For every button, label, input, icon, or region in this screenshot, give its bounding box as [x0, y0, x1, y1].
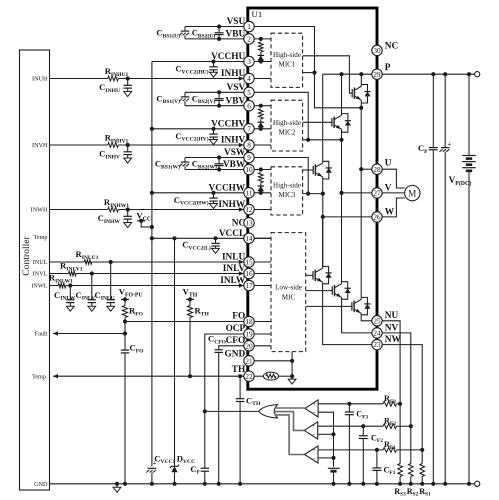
junction C_BS2(V) bottom: [217, 104, 221, 108]
pin 15: [244, 257, 254, 267]
ground C_INLV: [88, 306, 96, 311]
capacitor C_F3: [348, 404, 350, 412]
junction GND rail x=240.1: [238, 482, 242, 486]
svg-text:NV: NV: [385, 323, 399, 333]
wire V high emitter: [341, 129, 343, 140]
wire MIC2 gate output: [303, 121, 332, 123]
comparator 1: [305, 400, 318, 417]
wire to pin INLW: [66, 285, 244, 287]
wire pin 6 to MIC2: [254, 105, 271, 107]
wire VBU rail: [185, 38, 244, 40]
wire INVL from controller: [50, 273, 69, 275]
resistor R_INHU1: [108, 76, 119, 81]
high-side driver MIC2: [271, 100, 303, 151]
junction U collector on P: [359, 72, 363, 76]
wire pin 12 to MIC3: [254, 209, 271, 211]
wire MIC1 VS output: [303, 72, 315, 74]
ground symbol on GND rail: [115, 482, 119, 486]
resistor R_S1: [420, 464, 425, 477]
junction C_INLV: [90, 271, 94, 275]
junction node IN HU: [126, 76, 130, 80]
OR gate: [259, 405, 278, 418]
wire pin 3 to MIC1: [254, 61, 271, 63]
resistor R_F1: [383, 448, 396, 453]
svg-text:−: −: [312, 431, 316, 438]
ground internal: [291, 376, 293, 379]
capacitor C_VCC2(HW): [213, 193, 215, 198]
pin 13: [244, 218, 254, 228]
wire low-side gate W: [306, 274, 313, 276]
pin 18: [244, 316, 254, 326]
resistor R_INLV1: [69, 271, 77, 275]
pin 6: [244, 101, 254, 111]
wire comparator - reference bus: [318, 412, 333, 467]
svg-text:U1: U1: [252, 9, 263, 19]
svg-text:High-side: High-side: [273, 51, 301, 59]
low-side driver MIC: [271, 233, 306, 352]
svg-text:VBU: VBU: [226, 30, 246, 40]
IGBT low-side U: [351, 302, 353, 311]
ground C_INLU: [107, 306, 115, 311]
wire VCCHV: [152, 128, 244, 130]
svg-text:3: 3: [247, 58, 251, 66]
svg-text:30: 30: [373, 47, 381, 55]
freewheel diode W high: [323, 161, 329, 179]
svg-text:M: M: [408, 188, 416, 198]
ground C_INHU: [124, 92, 132, 97]
junction C_F2 tap: [361, 424, 365, 428]
svg-text:GND: GND: [225, 350, 246, 360]
svg-text:MIC: MIC: [282, 294, 296, 302]
junction Fault: [123, 331, 127, 335]
pin 24: [372, 328, 382, 338]
svg-text:Fault: Fault: [35, 331, 48, 338]
capacitor C_VCC1 electrolytic: [148, 467, 157, 469]
pin 20: [244, 341, 254, 351]
internal bootstrap resistor W: [259, 167, 263, 171]
junction MIC1 VS: [312, 71, 316, 75]
ground C_VCC2(HV): [210, 140, 218, 145]
internal bootstrap resistor V: [259, 104, 263, 108]
resistor R_F3: [383, 401, 396, 406]
pin 29: [372, 69, 382, 79]
svg-text:VSU: VSU: [227, 17, 246, 27]
wire NU to shunt R_S3: [382, 321, 400, 464]
svg-text:INWL: INWL: [31, 283, 47, 290]
junction VCC rail / VCCL: [150, 236, 154, 240]
wire NV to shunt R_S2: [382, 333, 411, 464]
capacitor C_BS1(W) electrolytic: [184, 158, 186, 162]
wire low-side gate U: [306, 305, 352, 307]
svg-text:−: −: [312, 409, 316, 416]
ground C_INHV: [124, 158, 132, 163]
wire pin 28 internal: [361, 168, 372, 170]
capacitor C_TH: [239, 376, 241, 398]
wire pin 27 internal: [342, 192, 372, 194]
svg-text:INVL: INVL: [33, 271, 48, 278]
svg-text:+: +: [312, 447, 316, 454]
junction U output to pin 28: [359, 167, 363, 171]
wire NW to shunt R_S1: [382, 345, 422, 464]
svg-text:17: 17: [245, 282, 253, 290]
wire pin 26 internal: [323, 216, 372, 218]
wire to pin IN HV: [118, 144, 244, 146]
junction C_VCC2(HW): [211, 191, 215, 195]
capacitor C_F2: [362, 426, 364, 435]
internal bootstrap diode W: [260, 184, 262, 192]
wire comparator 1 output to OR: [275, 407, 305, 409]
svg-text:NC: NC: [232, 219, 245, 229]
svg-text:VSW: VSW: [224, 148, 246, 158]
junction C_INLW: [68, 283, 72, 287]
svg-text:11: 11: [246, 189, 253, 197]
wire pin 4 to MIC1: [254, 78, 271, 80]
junction GND rail x=400.1: [398, 482, 402, 486]
capacitor C_INHV: [127, 145, 129, 152]
capacitor C_INHW: [127, 210, 129, 217]
wire VCCL: [152, 237, 271, 239]
svg-text:V: V: [385, 183, 392, 193]
wire low-side gate V: [306, 290, 333, 292]
junction GND rail x=469.0: [467, 482, 471, 486]
svg-text:2: 2: [247, 36, 251, 44]
svg-text:INVH: INVH: [32, 142, 48, 149]
junction C_INLU: [109, 260, 113, 264]
pin 12: [244, 204, 254, 214]
ground C_VCC2(HU): [210, 72, 218, 77]
junction C_VCC2(HU): [211, 59, 215, 63]
junction P / C_P: [431, 72, 435, 76]
wire V high collector to P: [341, 74, 343, 115]
svg-text:INHV: INHV: [221, 136, 246, 146]
capacitor C_BS1(U) electrolytic: [184, 27, 186, 31]
resistor R_INHV1: [108, 143, 119, 148]
wire pin 20 to low-side MIC: [254, 345, 271, 347]
svg-text:OCP: OCP: [226, 324, 246, 334]
svg-text:20: 20: [245, 342, 253, 350]
svg-text:Low-side: Low-side: [275, 284, 302, 292]
svg-text:16: 16: [245, 270, 253, 278]
junction R_F2 / NV rail: [409, 424, 413, 428]
junction thermistor node: [290, 374, 294, 378]
junction GND rail x=151.9: [150, 482, 154, 486]
svg-text:26: 26: [373, 214, 381, 222]
controller box: [20, 50, 50, 490]
thermistor on TH pin 22: [254, 375, 263, 377]
junction C_TH: [238, 374, 242, 378]
pin 16: [244, 268, 254, 278]
IGBT high-side U: [351, 89, 353, 98]
svg-text:21: 21: [245, 357, 253, 365]
pin 28: [372, 164, 382, 174]
wire U to motor: [382, 169, 405, 188]
pin 26: [372, 212, 382, 222]
svg-text:+: +: [312, 401, 316, 408]
wire VSV internal (pin 5): [254, 92, 308, 140]
wire comparator 3 output to OR: [275, 415, 305, 455]
resistor R_INLW1: [58, 283, 66, 287]
terminal GND: [475, 481, 480, 486]
junction VSV / MIC2 VS: [306, 138, 310, 142]
svg-text:U: U: [385, 159, 392, 169]
wire VSW internal (pin 9): [254, 158, 308, 194]
svg-text:VCCHU: VCCHU: [211, 52, 245, 62]
wire comparator 2 output to OR: [274, 412, 304, 431]
svg-text:W: W: [385, 207, 395, 217]
wire CFO from pin 20: [219, 346, 244, 350]
wire pin 14 to low-side MIC: [254, 237, 271, 239]
wire pin 2 to MIC1: [254, 38, 271, 40]
junction V emitter node: [339, 138, 343, 142]
junction OR output / OCP: [203, 409, 207, 413]
capacitor C_BS2(V): [218, 92, 220, 98]
junction C_F3 tap: [347, 402, 351, 406]
wire MIC2 VS output: [303, 139, 342, 141]
svg-text:Controller: Controller: [21, 235, 32, 275]
wire to pin INLU: [92, 261, 244, 263]
junction GND rail x=376.9: [375, 482, 379, 486]
pin 4: [244, 73, 254, 83]
svg-text:High-side: High-side: [273, 182, 301, 190]
wire VCCHU: [152, 61, 244, 63]
pin 3: [244, 56, 254, 66]
wire U high collector to P: [360, 74, 362, 86]
svg-text:VCCHW: VCCHW: [209, 183, 246, 193]
motor M: [405, 185, 420, 200]
comparator 2: [304, 422, 318, 439]
junction node IN HV: [126, 143, 130, 147]
resistor R_TH: [189, 299, 191, 305]
wire INUL from controller: [50, 261, 85, 263]
wire INVH from controller: [50, 144, 108, 146]
svg-text:23: 23: [373, 341, 381, 349]
internal bootstrap diode U: [260, 53, 262, 60]
junction P / battery: [467, 72, 471, 76]
junction GND rail x=218.7: [217, 482, 221, 486]
junction W output to pin 26: [321, 215, 325, 219]
wire W low collector: [322, 217, 324, 268]
svg-text:GND: GND: [34, 481, 48, 488]
svg-text:6: 6: [247, 102, 251, 110]
high-side driver MIC1: [271, 33, 303, 87]
junction node IN HW: [126, 207, 130, 211]
svg-text:VCCHV: VCCHV: [211, 119, 245, 129]
pin 23: [372, 339, 382, 349]
svg-text:VBW: VBW: [223, 160, 246, 170]
junction U emitter node: [359, 106, 363, 110]
svg-text:INLV: INLV: [223, 264, 246, 274]
freewheel diode V high: [342, 114, 348, 133]
wire W low emitter to pin 23: [323, 282, 372, 344]
svg-text:+: +: [312, 423, 316, 430]
resistor R_FO: [124, 299, 126, 305]
capacitor C_VCC2(HV): [213, 129, 215, 134]
capacitor C_INLV: [91, 274, 93, 300]
pin 19: [244, 329, 254, 339]
junction comp2 - input: [318, 433, 334, 435]
wire U output rail: [360, 108, 362, 297]
wire P bus internal: [323, 73, 372, 75]
svg-text:13: 13: [245, 219, 253, 227]
bulk electrolytic capacitor: [444, 74, 446, 147]
wire VCCHW: [152, 192, 244, 194]
wire U high emitter: [360, 100, 362, 108]
pin 11: [244, 188, 254, 198]
svg-text:VBV: VBV: [226, 96, 246, 106]
capacitor C_BS2(W): [218, 158, 220, 164]
svg-text:4: 4: [247, 75, 251, 83]
junction C_BS2(U) top: [217, 24, 221, 28]
pin 2: [244, 34, 254, 44]
svg-text:12: 12: [245, 206, 253, 214]
svg-text:INHU: INHU: [221, 69, 246, 79]
junction GND rail x=363.3: [361, 482, 365, 486]
svg-text:INUH: INUH: [32, 76, 48, 83]
IGBT high-side V: [331, 118, 333, 127]
junction R_TH / TH: [188, 374, 192, 378]
junction GND rail x=422.2: [420, 482, 424, 486]
svg-text:INUL: INUL: [33, 259, 48, 266]
svg-text:19: 19: [245, 331, 253, 339]
svg-text:15: 15: [245, 259, 253, 267]
wire OR output to OCP node: [205, 410, 259, 412]
junction GND rail x=125.0: [123, 482, 127, 486]
junction GND rail x=349.4: [347, 482, 351, 486]
svg-text:TH: TH: [232, 365, 246, 375]
svg-text:INLW: INLW: [220, 276, 246, 286]
svg-text:25: 25: [373, 317, 381, 325]
capacitor C_VCC2(HU): [213, 62, 215, 67]
wire U low collector: [360, 297, 362, 299]
capacitor C_BS1(V) electrolytic: [184, 92, 186, 96]
svg-text:INWH: INWH: [31, 207, 48, 214]
freewheel diode U low: [361, 297, 367, 314]
capacitor C_P: [432, 74, 434, 147]
svg-text:MIC2: MIC2: [279, 129, 296, 137]
pin 8: [244, 140, 254, 150]
IGBT low-side W: [312, 271, 314, 280]
ground C_INLW: [66, 306, 74, 311]
svg-text:8: 8: [247, 142, 251, 150]
wire P bus external: [382, 73, 474, 75]
svg-text:10: 10: [245, 166, 253, 174]
wire VBV rail: [185, 105, 244, 107]
zener diode D_VCC: [174, 238, 176, 466]
capacitor C_F1: [376, 450, 378, 468]
wire INUH from controller: [50, 78, 108, 80]
wire MIC1 gate output: [303, 56, 353, 93]
capacitor C_INLW: [69, 286, 71, 300]
junction C_VCC2(L): [213, 236, 217, 240]
capacitor C_CFO: [215, 349, 223, 351]
capacitor C_FO: [124, 334, 126, 350]
wire pin 15 to low-side MIC: [254, 261, 271, 263]
junction VSW / MIC3 VS: [306, 192, 310, 196]
freewheel diode V low: [342, 282, 348, 300]
junction C_BS2(W) bottom: [217, 167, 221, 171]
IGBT low-side V: [331, 286, 333, 295]
junction VCC tap on rail: [150, 225, 154, 229]
wire VBW rail: [185, 169, 244, 171]
junction W emitter node: [321, 192, 325, 196]
wire to pin IN HU: [118, 78, 244, 80]
resistor R_S3: [398, 464, 403, 477]
svg-text:5: 5: [247, 89, 251, 97]
ground C_INHW: [124, 223, 132, 228]
wire pin 18 to low-side MIC: [254, 321, 271, 323]
wire pin 11 to MIC3: [254, 192, 271, 194]
wire Fault to controller: [53, 333, 125, 335]
wire comparator2 + input row: [318, 425, 383, 427]
capacitor C_F: [201, 467, 209, 469]
pin 10: [244, 164, 254, 174]
junction GND rail x=433.3: [431, 482, 435, 486]
svg-text:7: 7: [247, 125, 251, 133]
junction D_VCC on VCCL: [172, 236, 176, 240]
pin 21: [244, 356, 254, 366]
resistor R_INLU1: [84, 260, 92, 264]
wire TH / Temp line: [53, 375, 244, 377]
wire W high emitter: [322, 177, 324, 194]
svg-text:NU: NU: [385, 311, 399, 321]
wire VSU internal (pin 1): [254, 27, 361, 108]
wire VSW rail: [185, 157, 244, 159]
wire W output rail: [322, 194, 324, 267]
pin 14: [244, 233, 254, 243]
svg-text:+: +: [448, 141, 452, 148]
wire low-side MIC ground stub: [291, 352, 293, 377]
pin 9: [244, 152, 254, 162]
pin 7: [244, 124, 254, 134]
svg-text:VCCL: VCCL: [219, 229, 245, 239]
svg-text:High-side: High-side: [273, 119, 301, 127]
ground C_VCC2(L): [212, 248, 220, 253]
wire pin 7 to MIC2: [254, 128, 271, 130]
capacitor C_INLU: [110, 262, 112, 300]
high-side driver MIC3: [271, 167, 303, 215]
junction GND / MIC stub: [290, 359, 294, 363]
freewheel diode W low: [323, 266, 329, 283]
junction C_BS2(V) top: [217, 90, 221, 94]
capacitor C_VCC2(L): [215, 238, 217, 243]
svg-text:VSV: VSV: [227, 83, 246, 93]
ground C_VCC2(HW): [210, 204, 218, 209]
junction C_VCC2(HV): [211, 127, 215, 131]
junction R_F1 / NW rail: [420, 448, 424, 452]
wire V low collector: [341, 282, 343, 285]
pin 25: [372, 316, 382, 326]
junction C_F1 tap: [375, 448, 379, 452]
svg-text:22: 22: [245, 373, 253, 381]
resistor R_F2: [383, 424, 396, 429]
IGBT high-side W: [312, 166, 314, 175]
capacitor C_BS2(U): [218, 27, 220, 33]
svg-text:28: 28: [373, 166, 381, 174]
pin 5: [244, 87, 254, 97]
wire V low emitter to pin 24: [342, 298, 372, 333]
wire INWL from controller: [50, 285, 59, 287]
svg-text:INHW: INHW: [218, 200, 246, 210]
pin 17: [244, 280, 254, 290]
comparator 3: [305, 446, 319, 463]
resistor R_INHW1: [108, 207, 119, 212]
internal bootstrap diode V: [260, 120, 262, 127]
svg-text:NC: NC: [385, 42, 398, 52]
wire pin 8 to MIC2: [254, 144, 271, 146]
wire VCC rail vertical: [151, 62, 153, 467]
wire V to motor: [382, 192, 404, 194]
pin 27: [372, 188, 382, 198]
